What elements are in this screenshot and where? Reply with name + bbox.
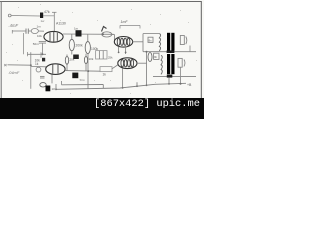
svg-text:1k: 1k [103,73,107,77]
svg-text:100k: 100k [91,47,99,51]
svg-text:10k: 10k [37,34,42,38]
svg-text:200k: 200k [76,44,84,48]
svg-text:10k: 10k [89,57,94,61]
svg-text:1k: 1k [35,62,39,66]
svg-text:.04mF: .04mF [8,70,20,75]
svg-text:1m: 1m [74,26,79,30]
svg-text:1mF: 1mF [121,20,129,24]
svg-text:25k: 25k [108,56,113,60]
svg-text:50m: 50m [80,78,86,82]
svg-text:[867x422] upic.me: [867x422] upic.me [94,98,200,110]
svg-text:A1130: A1130 [56,21,66,25]
svg-text:20k: 20k [70,57,75,61]
svg-text:47k: 47k [44,10,50,14]
svg-text:10w: 10w [52,87,58,91]
svg-text:+B: +B [187,83,192,87]
svg-text:50m: 50m [33,42,39,46]
svg-text:.4mF: .4mF [9,23,19,28]
svg-text:1m: 1m [37,25,42,29]
